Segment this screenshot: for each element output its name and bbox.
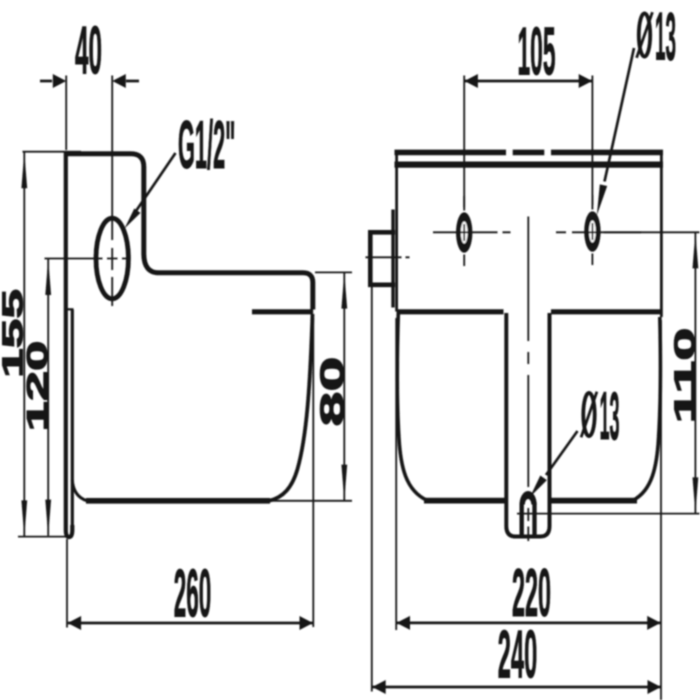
svg-text:110: 110 <box>669 328 700 424</box>
dimension 105: dimension line with inside arrows <box>465 80 592 83</box>
dimension 260: extension lines <box>67 318 313 628</box>
front view: drain tube with U bottom <box>506 313 549 537</box>
front view: top plate upper edge with gaps <box>395 150 664 156</box>
dimension 80: dimension line <box>343 273 345 501</box>
svg-text:80: 80 <box>314 357 351 427</box>
side view: spout bottom inner line <box>252 309 313 314</box>
side view: small step joining wall lines <box>66 308 74 310</box>
dimension 220: extension lines <box>396 318 661 700</box>
dimension 155: extension lines top and bottom <box>18 152 81 537</box>
svg-text:13: 13 <box>600 378 620 454</box>
front view: pipe socket rectangle <box>370 232 395 284</box>
svg-text:40: 40 <box>75 13 102 89</box>
pipe socket ellipse G1/2 <box>96 218 128 299</box>
side view: top tab and spout cover outline <box>64 154 313 310</box>
svg-text:120: 120 <box>22 341 54 432</box>
dimension 155: dimension line <box>23 152 25 536</box>
front view: socket center line <box>366 256 410 258</box>
front view: body right edge <box>660 151 663 317</box>
side view: bowl front edge curve <box>269 314 313 501</box>
center line horizontal through socket <box>45 258 130 260</box>
front view: bowl right edge curve <box>633 317 660 500</box>
dimension 40: extension lines <box>66 76 112 153</box>
label diameter 13 top: leader arrow <box>605 48 635 182</box>
label G1/2" leader arrow <box>136 153 176 211</box>
svg-text:105: 105 <box>518 13 556 89</box>
center line vertical through socket <box>111 155 113 306</box>
dimension 240: extension line left <box>371 283 373 692</box>
side view: bowl back fillet <box>72 480 87 501</box>
label diameter 13 bottom: text <box>583 393 594 436</box>
drain hole center extension line <box>517 513 700 515</box>
front view: top plate lower edge <box>395 162 664 168</box>
dimension 110: dimension line <box>694 233 696 514</box>
dimension 120: dimension line <box>47 259 49 536</box>
dimension 105: extension lines <box>464 76 592 208</box>
svg-text:G1/2": G1/2" <box>178 107 236 183</box>
front view: vertical center line dash-dot <box>527 217 529 542</box>
dimension 110: extension line top <box>604 231 700 233</box>
dimension 40: dimension line with outside arrows <box>40 80 139 83</box>
drain hole arch <box>522 503 535 539</box>
svg-text:13: 13 <box>655 0 676 75</box>
side view: bowl bottom <box>86 498 270 504</box>
label diameter 13 bottom: leader arrow <box>546 431 578 475</box>
dimension 220: dimension line with inside arrows <box>397 622 661 625</box>
svg-text:240: 240 <box>498 617 538 693</box>
dimension 240: dimension line with inside arrows <box>373 686 661 689</box>
front view: bowl left edge curve <box>397 313 427 500</box>
side view: wall inner surface line <box>71 310 74 527</box>
front view: holes center line horizontal <box>433 231 641 233</box>
mounting hole left <box>456 212 472 253</box>
front view: bowl rim inner line <box>397 309 661 314</box>
dimension 260: dimension line with inside arrows <box>68 622 313 625</box>
mounting hole right <box>584 211 600 252</box>
dimension 80: extension lines <box>272 272 352 500</box>
label diameter 13 top: text <box>639 13 650 56</box>
front view: body left edge <box>395 151 398 312</box>
side view: mounting wall outer edge with hem bottom <box>66 152 73 537</box>
front view: bowl bottom <box>424 498 637 504</box>
svg-text:260: 260 <box>174 556 212 632</box>
front view: socket flange edge line <box>391 210 394 308</box>
